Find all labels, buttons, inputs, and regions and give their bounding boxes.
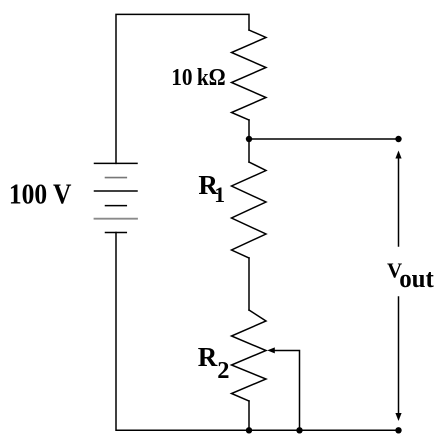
svg-text:R: R xyxy=(198,342,218,372)
svg-text:100 V: 100 V xyxy=(9,178,72,210)
svg-text:out: out xyxy=(399,264,434,294)
svg-text:2: 2 xyxy=(217,357,229,384)
svg-text:1: 1 xyxy=(214,182,225,207)
svg-text:10 kΩ: 10 kΩ xyxy=(171,64,225,91)
